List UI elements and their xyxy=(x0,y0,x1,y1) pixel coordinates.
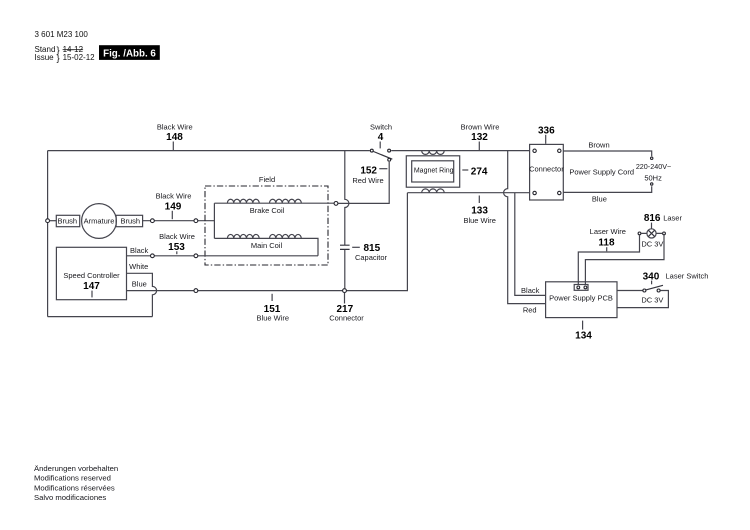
wire: blue wire 133 row xyxy=(407,192,529,194)
svg-text:Brown Wire: Brown Wire xyxy=(461,123,500,132)
leader tick 274 xyxy=(462,169,468,171)
laser lamp 816 circle xyxy=(647,229,656,238)
wire PCB to laser switch xyxy=(617,290,643,292)
lamp contact left xyxy=(638,232,641,235)
wire power cord brown xyxy=(563,151,651,156)
svg-text:134: 134 xyxy=(575,330,592,341)
node armature row left xyxy=(151,219,155,223)
wire white with hop over blue row xyxy=(127,273,157,316)
wire: top black wire 148, left of switch xyxy=(48,150,370,152)
svg-text:Switch: Switch xyxy=(370,123,392,132)
svg-text:Main Coil: Main Coil xyxy=(251,241,283,250)
wire: bottom return xyxy=(48,316,153,318)
wire: black wire 153 row xyxy=(127,255,319,257)
svg-text:Armature: Armature xyxy=(84,217,115,226)
svg-text:148: 148 xyxy=(166,132,183,143)
svg-text:816: 816 xyxy=(644,213,661,224)
plug terminal upper xyxy=(651,157,653,159)
wire: black wire 149 armature row to field xyxy=(142,220,214,222)
wire field left bracket xyxy=(213,203,215,238)
svg-text:Laser Wire: Laser Wire xyxy=(590,227,626,236)
capacitor C815 plates xyxy=(340,245,350,249)
svg-text:}: } xyxy=(57,53,60,64)
svg-text:Brush: Brush xyxy=(58,217,78,226)
lamp lead wires xyxy=(641,232,662,234)
connector pin top-right xyxy=(558,149,561,152)
laser switch 340 blade xyxy=(646,285,663,290)
leader tick 134 xyxy=(582,321,584,330)
connector pin top-left xyxy=(533,149,536,152)
svg-text:Blue: Blue xyxy=(132,279,147,288)
svg-text:Connector: Connector xyxy=(529,165,564,174)
leader tick 151 xyxy=(271,294,273,301)
svg-text:Änderungen vorbehalten: Änderungen vorbehalten xyxy=(34,464,118,473)
switch S4 contact left xyxy=(370,149,373,152)
lamp contact right xyxy=(663,232,666,235)
leader tick 815 xyxy=(352,246,360,248)
svg-text:149: 149 xyxy=(165,202,182,213)
svg-text:Blue Wire: Blue Wire xyxy=(257,313,290,322)
svg-text:Connector: Connector xyxy=(329,313,364,322)
svg-text:15-02-12: 15-02-12 xyxy=(63,53,96,62)
wire laser 118 right lead to PCB terminal xyxy=(585,235,664,284)
laser lamp X xyxy=(648,230,655,237)
node brush feed on left vertical xyxy=(46,219,50,223)
leader tick 4 xyxy=(379,142,381,149)
svg-text:Black: Black xyxy=(521,286,540,295)
svg-text:DC 3V: DC 3V xyxy=(641,295,663,304)
leader tick 147 xyxy=(91,291,93,298)
connector pin bottom-left xyxy=(533,191,536,194)
magnet ring 274 outer box xyxy=(406,156,459,187)
node brake coil output xyxy=(334,202,338,206)
svg-text:Blue: Blue xyxy=(592,195,607,204)
svg-text:Blue Wire: Blue Wire xyxy=(463,216,496,225)
wire laser 118 left lead to PCB terminal xyxy=(578,235,639,284)
wire main coil row and right drop xyxy=(214,238,318,255)
PCB terminal pin right xyxy=(584,286,587,289)
wire black drop to PCB xyxy=(515,193,546,296)
wire: red wire 152 from switch to brake coil node xyxy=(338,162,389,203)
leader tick 340 xyxy=(651,281,653,285)
brake coil inductor xyxy=(227,199,301,203)
wire laser switch return loop xyxy=(617,291,668,308)
armature motor circle xyxy=(82,204,117,239)
svg-text:274: 274 xyxy=(471,166,488,177)
speed controller 147 box xyxy=(56,247,126,299)
PCB terminal pin left xyxy=(577,286,580,289)
wire brake coil row xyxy=(214,202,336,204)
leader tick 217 xyxy=(344,293,346,304)
leader tick 153 xyxy=(176,251,178,254)
svg-text:Brake Coil: Brake Coil xyxy=(250,206,285,215)
wire node to left brush xyxy=(50,220,57,222)
PCB terminal block xyxy=(574,285,588,291)
svg-text:Black Wire: Black Wire xyxy=(156,192,192,201)
leader tick 133 xyxy=(478,196,480,204)
svg-text:Issue: Issue xyxy=(35,53,55,62)
Fig./Abb. 6 title box xyxy=(99,45,160,60)
svg-text:Field: Field xyxy=(259,175,275,184)
leader tick 336 xyxy=(545,135,547,144)
svg-text:Laser Switch: Laser Switch xyxy=(666,272,709,281)
brush box right xyxy=(116,215,143,226)
wire: blue wire 151 row to magnet ring xyxy=(127,193,408,291)
wire capacitor branch with hop over red wire xyxy=(345,151,349,289)
svg-text:DC 3V: DC 3V xyxy=(641,240,663,249)
node 153 row left xyxy=(151,254,155,258)
leader tick 149 xyxy=(171,211,173,219)
svg-text:Modifications réservées: Modifications réservées xyxy=(34,483,115,492)
svg-text:152: 152 xyxy=(360,165,377,176)
brush box left xyxy=(56,215,79,226)
power supply PCB 134 box xyxy=(546,282,617,318)
leader tick 816 xyxy=(651,223,653,229)
svg-text:Brush: Brush xyxy=(121,217,141,226)
plug terminal lower xyxy=(651,183,653,185)
svg-text:Red Wire: Red Wire xyxy=(352,176,383,185)
node 153 row right xyxy=(194,254,198,258)
svg-text:Black: Black xyxy=(130,246,149,255)
svg-text:Black Wire: Black Wire xyxy=(157,123,193,132)
magnet ring top coil xyxy=(422,151,445,155)
laser switch contact right xyxy=(657,289,660,292)
main coil inductor xyxy=(227,234,301,238)
svg-text:Red: Red xyxy=(523,305,537,314)
node connector 217 xyxy=(343,289,347,293)
wire: top wire right of switch to connector xyxy=(391,150,529,152)
svg-text:336: 336 xyxy=(538,125,555,136)
magnet ring bottom coil xyxy=(422,189,445,193)
node armature row right xyxy=(194,219,198,223)
svg-text:Power Supply PCB: Power Supply PCB xyxy=(549,294,613,303)
leader tick 152 xyxy=(379,168,387,170)
svg-text:Salvo modificaciones: Salvo modificaciones xyxy=(34,493,106,502)
svg-text:Capacitor: Capacitor xyxy=(355,253,388,262)
switch S4 contact right xyxy=(388,149,391,152)
svg-text:Black Wire: Black Wire xyxy=(159,232,195,241)
svg-text:Fig. /Abb. 6: Fig. /Abb. 6 xyxy=(103,49,156,60)
switch S4 blade xyxy=(374,152,393,160)
node blue row xyxy=(194,289,198,293)
svg-text:White: White xyxy=(129,262,148,271)
wire power cord blue xyxy=(563,186,651,192)
svg-text:220-240V~: 220-240V~ xyxy=(636,162,671,171)
connector pin bottom-right xyxy=(558,191,561,194)
magnet ring inner box xyxy=(412,161,454,182)
leader tick 148 xyxy=(172,142,174,151)
wire: left vertical side xyxy=(47,151,49,317)
svg-text:Laser: Laser xyxy=(663,213,682,222)
connector 336 box xyxy=(530,144,564,200)
svg-text:50Hz: 50Hz xyxy=(644,174,662,183)
svg-text:Brown: Brown xyxy=(588,141,609,150)
svg-text:147: 147 xyxy=(83,281,100,292)
field dash-dot box xyxy=(205,186,328,265)
leader tick 132 xyxy=(478,142,480,151)
svg-text:Magnet Ring: Magnet Ring xyxy=(414,167,454,174)
leader tick 118 xyxy=(606,247,608,251)
svg-text:118: 118 xyxy=(598,238,615,249)
switch S4 contact lower xyxy=(388,158,391,161)
svg-text:3 601 M23 100: 3 601 M23 100 xyxy=(35,30,89,39)
wire red drop to PCB with hop over blue 133 xyxy=(504,151,546,304)
svg-text:Modifications reserved: Modifications reserved xyxy=(34,474,111,483)
svg-text:Power Supply Cord: Power Supply Cord xyxy=(569,167,634,176)
laser switch contact left xyxy=(643,289,646,292)
svg-text:Speed Controller: Speed Controller xyxy=(63,271,120,280)
